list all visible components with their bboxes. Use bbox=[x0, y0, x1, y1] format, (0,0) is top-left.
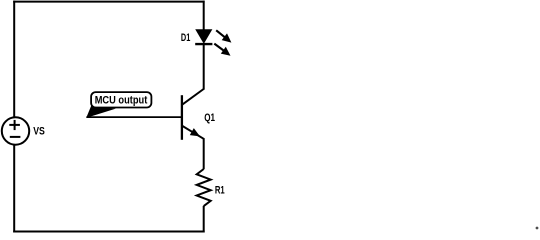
MCU output callout bbox=[86, 92, 151, 118]
wire left rail lower bbox=[13, 145, 15, 233]
voltage source VS bbox=[2, 117, 29, 144]
svg-text:D1: D1 bbox=[181, 32, 190, 44]
wire resistor to bottom rail bbox=[203, 206, 205, 233]
LED emission arrow 2 bbox=[214, 44, 230, 56]
transistor Q1 bbox=[182, 89, 204, 140]
stray dot bottom right bbox=[536, 227, 539, 230]
wire left rail upper bbox=[13, 1, 15, 118]
wire emitter to resistor bbox=[203, 139, 205, 170]
svg-text:VS: VS bbox=[33, 125, 45, 137]
svg-text:MCU output: MCU output bbox=[95, 94, 148, 106]
svg-text:Q1: Q1 bbox=[204, 112, 215, 124]
wire top rail bbox=[13, 1, 204, 3]
svg-text:R1: R1 bbox=[215, 185, 225, 197]
wire base bbox=[86, 116, 182, 118]
wire right rail above LED bbox=[203, 1, 205, 31]
wire LED cathode to collector bbox=[203, 44, 205, 89]
wire bottom rail bbox=[13, 231, 204, 233]
resistor R1 bbox=[197, 169, 211, 206]
LED emission arrow 1 bbox=[216, 30, 231, 42]
LED D1 bbox=[195, 30, 212, 44]
